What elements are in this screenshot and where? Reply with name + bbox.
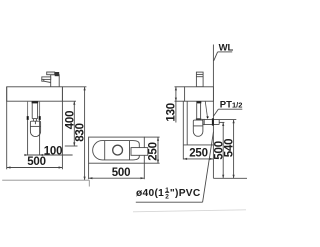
dim line 830 <box>84 87 86 180</box>
dim line 250 plan <box>157 137 159 163</box>
ext line 400 bottom <box>65 145 78 147</box>
plan bowl <box>93 141 140 160</box>
arrow 250p bottom <box>157 160 159 164</box>
basin right edge extension <box>61 87 63 170</box>
trap inner hline <box>30 125 40 127</box>
tailpiece left line <box>31 103 33 118</box>
arrow 250s right <box>210 158 214 160</box>
svg-text:ø40(1: ø40(1 <box>136 188 164 199</box>
baseline right <box>213 177 247 179</box>
side tailpiece left <box>196 103 198 118</box>
500 ext hline <box>219 121 224 123</box>
faint floor artifact <box>133 210 246 212</box>
arrow 500f left <box>7 166 11 168</box>
svg-text:250: 250 <box>148 142 160 161</box>
trap nut side <box>196 118 201 120</box>
svg-text:WL: WL <box>219 42 234 53</box>
dim line 400 <box>73 101 75 146</box>
basin front rect <box>7 87 63 101</box>
dim line 540 side <box>233 120 235 179</box>
side faucet hline2 <box>196 76 203 78</box>
pop-up rod <box>205 101 207 117</box>
under-basin vline A <box>182 101 184 145</box>
wall escutcheon <box>212 118 214 125</box>
plan outer rect <box>89 137 145 163</box>
250side ext left <box>182 145 184 160</box>
WL leader <box>214 52 218 61</box>
floor end tick <box>88 180 90 186</box>
pvc leader <box>203 132 214 203</box>
arrow 830 top <box>84 87 86 91</box>
extension line trap right <box>39 120 41 155</box>
side faucet hline1 <box>196 73 203 75</box>
under-basin vline B <box>186 101 188 145</box>
trap neck left <box>32 119 34 122</box>
dim line 100 <box>25 154 73 156</box>
arrow 400 bottom <box>73 142 75 146</box>
dim line 250 side <box>183 158 213 160</box>
dim line 130 <box>175 87 177 123</box>
svg-text:500: 500 <box>27 156 46 168</box>
bowl inner vline left <box>104 141 106 160</box>
svg-text:PT1/2: PT1/2 <box>220 99 243 110</box>
faucet body <box>51 75 60 87</box>
drain pipe top <box>201 119 236 121</box>
side flange black <box>196 101 201 103</box>
drain flange black <box>32 101 39 103</box>
bottle trap front <box>30 121 40 136</box>
side faucet <box>196 72 203 87</box>
faucet spout underside <box>44 81 51 82</box>
svg-text:130: 130 <box>166 103 178 122</box>
drain pipe end <box>218 120 220 125</box>
bracket square left <box>27 116 29 120</box>
arrow 100 right <box>40 154 43 156</box>
pipe nut line2 <box>203 119 205 125</box>
dim line 500 side <box>222 122 224 178</box>
arrow 250p top <box>157 137 159 141</box>
floor line front <box>2 179 89 181</box>
bottle trap side <box>193 120 203 136</box>
plan ext right <box>143 163 145 179</box>
faucet spout bar <box>42 77 51 80</box>
arrow 130 top <box>175 87 177 91</box>
tap rect plan <box>131 148 148 156</box>
PT leader <box>213 109 218 116</box>
basin top ext to 830 dim <box>62 86 86 88</box>
plan ext bottom right <box>144 162 159 164</box>
pipe outer line left <box>27 101 29 116</box>
bracket square right <box>39 116 41 120</box>
svg-text:100: 100 <box>44 146 63 158</box>
WL underline <box>218 51 233 53</box>
faucet handle bar <box>47 72 55 75</box>
faucet handle dark block <box>55 72 60 76</box>
pipe nut line1 <box>202 119 204 125</box>
arrow 500p left <box>89 177 93 179</box>
arrow 830 bottom <box>84 177 86 181</box>
tailpiece bottom tick <box>32 118 37 120</box>
arrow 540 top <box>233 120 235 124</box>
trap neck right <box>35 119 37 122</box>
drain circle <box>113 145 123 155</box>
svg-text:500: 500 <box>112 167 131 179</box>
svg-text:830: 830 <box>75 123 87 142</box>
rod clamp <box>206 117 209 119</box>
svg-text:2: 2 <box>165 194 169 201</box>
arrow 100 left <box>24 154 27 156</box>
arrow 500s top <box>222 122 224 126</box>
130 ext bottom <box>175 100 185 102</box>
basin left edge extension <box>6 87 8 170</box>
dim line 500 front <box>7 167 63 169</box>
arrow 250s left <box>183 158 187 160</box>
svg-text:250: 250 <box>189 147 208 159</box>
arrow 500f right <box>59 166 63 168</box>
faucet spout lip <box>42 79 44 81</box>
arrow 500s bottom <box>222 175 224 179</box>
dim line 500 plan <box>89 177 145 179</box>
basin side rect <box>185 87 214 101</box>
svg-text:540: 540 <box>224 139 236 158</box>
PT underline <box>218 108 242 110</box>
plan ext left <box>88 163 90 179</box>
under-basin hline <box>183 144 213 146</box>
fraction bar <box>165 192 169 194</box>
130 ext top <box>175 86 185 88</box>
arrow 500p right <box>141 177 145 179</box>
pipe outer line right <box>39 101 41 116</box>
arrow 540 bottom <box>233 175 235 179</box>
arrow 400 top <box>73 101 75 105</box>
extension line trap left <box>27 120 29 155</box>
plan ext top right <box>144 136 159 138</box>
arrow 130 bottom <box>175 98 177 102</box>
pvc underline <box>136 201 203 203</box>
trap top notch <box>34 121 36 124</box>
basin bottom ext to 400 dim <box>62 100 76 102</box>
drain pipe bottom <box>203 123 219 125</box>
tailpiece right line <box>37 103 39 118</box>
svg-text:")PVC: ")PVC <box>170 188 201 199</box>
side tailpiece right <box>200 103 202 118</box>
bowl inner vline right <box>129 141 131 160</box>
wall line <box>212 45 214 179</box>
trap side hline <box>193 125 203 127</box>
